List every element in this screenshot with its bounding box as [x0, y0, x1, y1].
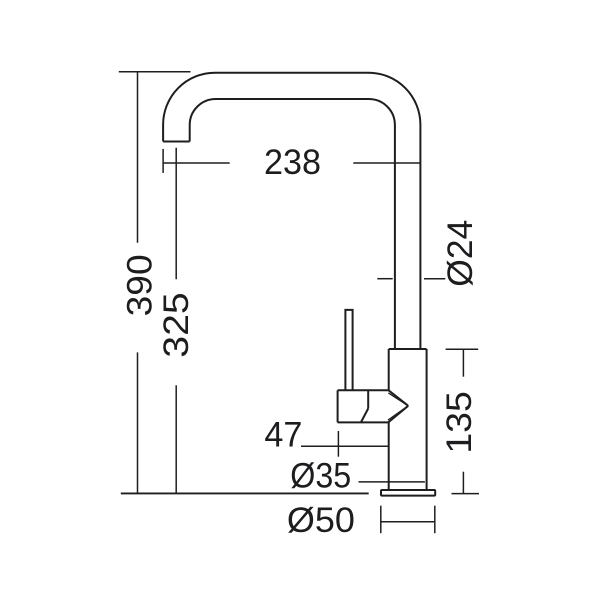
base plate — [381, 490, 435, 496]
svg-text:Ø35: Ø35 — [290, 457, 351, 496]
leader line Ø24 left — [377, 278, 392, 280]
handle internal diagonal — [361, 409, 368, 423]
dimension line Ø50 — [381, 521, 435, 523]
dimension 47 tick — [337, 431, 339, 457]
svg-text:Ø50: Ø50 — [287, 501, 355, 540]
svg-text:47: 47 — [264, 415, 302, 454]
spout outlet bottom edge — [163, 141, 190, 143]
dimension line 135 lower — [462, 472, 464, 494]
body top edge — [389, 348, 427, 350]
handle rod — [345, 310, 352, 390]
body left edge lower — [388, 422, 390, 490]
dimension 135 bottom tick and ground right — [452, 493, 480, 495]
cone upper inner line — [388, 393, 408, 406]
body right edge — [426, 349, 428, 490]
top extension line — [119, 71, 191, 73]
svg-text:Ø24: Ø24 — [441, 220, 480, 287]
dimension Ø50 right tick — [434, 506, 436, 534]
handle internal vertical line — [367, 390, 369, 408]
dimension line 238 left — [163, 162, 230, 164]
handle base top edge — [338, 389, 389, 391]
dimension Ø50 left tick — [380, 506, 382, 534]
svg-text:390: 390 — [120, 254, 159, 316]
handle base bottom edge — [338, 421, 389, 423]
dimension line 47 — [301, 445, 389, 447]
dimension line 135 upper — [462, 349, 464, 376]
spout outer contour — [163, 73, 420, 349]
dimension line 238 right — [353, 162, 421, 164]
ground line — [121, 492, 369, 494]
dimension line 390 upper — [137, 72, 139, 243]
cone lower edge — [388, 406, 408, 423]
leader line Ø35 — [359, 481, 425, 483]
leader line Ø24 right — [424, 278, 445, 280]
svg-text:135: 135 — [440, 391, 479, 454]
body left edge upper — [388, 349, 390, 390]
handle base left edge — [337, 390, 339, 422]
dimension line 325 upper — [175, 148, 177, 280]
cone lower inner line — [388, 406, 408, 420]
svg-text:238: 238 — [264, 143, 321, 182]
dimension line 390 lower — [137, 352, 139, 493]
cone upper edge — [389, 390, 409, 406]
dimension line 325 lower — [175, 385, 177, 493]
spout inner contour — [190, 99, 395, 349]
svg-text:325: 325 — [157, 292, 196, 357]
dimension 135 top tick — [446, 348, 479, 350]
dimension 238 left tick — [162, 149, 164, 173]
